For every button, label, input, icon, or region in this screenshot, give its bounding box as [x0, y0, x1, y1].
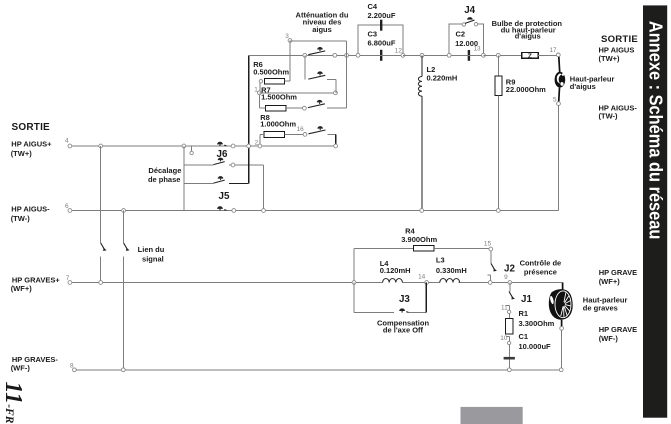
svg-text:9: 9 — [504, 274, 508, 281]
svg-text:SORTIE: SORTIE — [601, 34, 638, 45]
wire tweeter bottom lead — [558, 88, 561, 102]
wire TW+ rail — [72, 145, 336, 147]
svg-text:0.330mH: 0.330mH — [436, 266, 467, 275]
label Haut-parleur de graves — [583, 295, 628, 312]
label Haut-parleur d'aigus — [570, 74, 615, 91]
node row A output bus junction — [345, 53, 349, 57]
svg-text:aigus: aigus — [312, 25, 332, 34]
label R7 1.500Ohm — [261, 85, 297, 101]
wire signal link left vertical lower — [99, 256, 101, 282]
node J6 row2 on TW- rail — [262, 209, 266, 213]
svg-text:15: 15 — [484, 240, 492, 247]
svg-text:de phase: de phase — [148, 175, 181, 184]
svg-text:d'aigus: d'aigus — [570, 82, 596, 91]
node 2 on TW+ rail — [258, 144, 262, 148]
wire J6/J5 left vertical — [183, 146, 185, 211]
switch J6 row2 open blade — [214, 158, 225, 165]
node 14 — [425, 281, 429, 285]
svg-text:C4: C4 — [368, 2, 378, 11]
wire pin11 to R1 — [508, 314, 510, 319]
svg-text:J4: J4 — [464, 5, 475, 16]
wire R4 branch left vertical — [353, 248, 355, 282]
wire WF- rail — [76, 369, 561, 371]
wire output bus vertical — [346, 41, 348, 108]
label HP AIGUS (TW+) — [599, 46, 635, 63]
label Controle de presence — [520, 258, 562, 276]
node attenuation bus on TW+ rail — [247, 144, 251, 148]
wire C2 loop — [449, 24, 483, 55]
svg-text:(WF-): (WF-) — [11, 364, 31, 373]
node L2 tap — [420, 53, 424, 57]
wire pin10 to C1 — [508, 345, 510, 357]
node signal link right on WF- rail — [121, 368, 125, 372]
svg-text:HP AIGUS-: HP AIGUS- — [11, 205, 50, 214]
svg-text:1.500Ohm: 1.500Ohm — [261, 92, 297, 101]
label HP GRAVE (WF+) — [599, 268, 637, 286]
node L2 bottom on TW- rail — [420, 209, 424, 213]
svg-text:présence: présence — [524, 267, 557, 276]
node 17 — [556, 53, 560, 57]
resistor R8 — [260, 132, 284, 146]
svg-text:Z: Z — [528, 53, 532, 60]
resistor R7 — [260, 95, 286, 112]
svg-text:J2: J2 — [504, 263, 515, 274]
wire C3C4 loop — [358, 25, 403, 55]
svg-text:J5: J5 — [219, 191, 230, 202]
wire J6 row2 drop to TW- rail — [263, 165, 265, 211]
wire rail C2 to bulb — [483, 54, 521, 56]
switch J2 blade — [491, 264, 497, 272]
label HP GRAVES- (WF-) — [11, 355, 59, 373]
svg-text:3.900Ohm: 3.900Ohm — [401, 235, 437, 244]
node right of J5 — [232, 209, 236, 213]
switch S4 blade — [309, 126, 326, 134]
svg-text:J1: J1 — [521, 294, 532, 305]
node 1 — [258, 91, 262, 95]
wire J1 upper stub — [509, 283, 511, 292]
svg-text:10.000uF: 10.000uF — [519, 342, 552, 351]
label Attenuation du niveau des aigus — [296, 10, 349, 34]
svg-text:13: 13 — [473, 46, 481, 53]
jumper J5 closed blade — [217, 206, 226, 210]
wire switch S2 feed vertical — [304, 55, 306, 79]
wire row D output elbow — [328, 134, 336, 146]
svg-text:(TW-): (TW-) — [11, 214, 31, 223]
svg-text:0.220mH: 0.220mH — [427, 74, 458, 83]
node row D output on TW+ rail — [334, 144, 338, 148]
wire R4 branch top right — [434, 247, 489, 249]
label HP GRAVE (WF-) — [599, 325, 637, 343]
terminal 4 — [68, 144, 72, 148]
node R9 bottom on TW- rail — [496, 209, 500, 213]
switch S2 blade — [308, 71, 325, 79]
svg-text:C2: C2 — [456, 30, 466, 39]
wire attenuation row A — [249, 54, 358, 56]
wire J5 row3 left segment — [184, 183, 214, 185]
svg-text:14: 14 — [418, 274, 426, 281]
signal link switch right — [124, 243, 130, 251]
wire row C output elbow — [327, 107, 347, 109]
node row B right — [334, 91, 338, 95]
label HP AIGUS- (TW-) — [11, 205, 50, 224]
wire rail C3C4 to C2 — [403, 54, 449, 56]
svg-text:Contrôle de: Contrôle de — [520, 258, 562, 267]
wire J3 loop left vertical — [353, 283, 355, 313]
svg-text:4: 4 — [65, 138, 69, 145]
label Bulbe de protection du haut-parleur d'aigus — [492, 19, 563, 40]
bottom gray box — [461, 407, 523, 424]
node row C input — [303, 106, 307, 110]
svg-text:17: 17 — [549, 47, 557, 54]
capacitor C3 plate — [380, 50, 382, 61]
node row A output — [333, 53, 337, 57]
label Decalage de phase — [148, 166, 181, 184]
wire TW- rail — [72, 210, 559, 212]
svg-text:6.800uF: 6.800uF — [368, 38, 396, 47]
label L2 0.220mH — [427, 65, 458, 83]
wire node3 horizontal — [290, 40, 347, 42]
node C3C4 right on rail — [401, 53, 405, 57]
svg-text:Lien du: Lien du — [138, 245, 165, 254]
node 15 — [489, 247, 493, 251]
jumper J3 closed blade — [399, 308, 408, 312]
wire J2 upper stub — [490, 251, 492, 264]
node signal link left on WF+ rail — [99, 281, 103, 285]
svg-text:16: 16 — [297, 126, 305, 133]
protection bulb Z element — [522, 52, 539, 60]
svg-text:(TW+): (TW+) — [11, 149, 33, 158]
inductor L2 — [418, 55, 422, 210]
capacitor C4 plate — [380, 20, 382, 31]
label HP GRAVES+ (WF+) — [11, 275, 61, 293]
svg-text:SORTIE: SORTIE — [12, 122, 51, 133]
node woofer on WF- rail — [559, 368, 563, 372]
label L4 0.120mH — [380, 259, 411, 275]
jumper J6 closed blade — [217, 142, 226, 146]
capacitor C2 plate — [468, 50, 470, 61]
wire J6 row2 right segment — [229, 164, 264, 166]
wire tweeter top lead — [558, 57, 561, 72]
svg-text:HP GRAVE: HP GRAVE — [599, 268, 637, 277]
node J6 block top-left — [182, 144, 186, 148]
switch J1 blade — [509, 292, 515, 300]
pin 10 connector — [506, 337, 511, 345]
svg-text:Annexe : Schéma du réseau: Annexe : Schéma du réseau — [645, 21, 666, 240]
label R1 3.300Ohm — [519, 309, 555, 328]
svg-text:11-FR: 11-FR — [0, 382, 26, 424]
wire rail under C3 — [358, 54, 403, 56]
svg-text:5: 5 — [553, 96, 557, 103]
svg-text:0.500Ohm: 0.500Ohm — [253, 68, 289, 77]
svg-text:22.000Ohm: 22.000Ohm — [506, 85, 546, 94]
wire signal link right vertical upper — [123, 211, 125, 244]
tweeter speaker symbol Haut-parleur d'aigus — [555, 72, 566, 88]
label Compensation de l'axe Off — [377, 318, 430, 334]
signal link switch left — [101, 243, 107, 251]
svg-text:de l'axe Off: de l'axe Off — [383, 326, 424, 335]
resistor R4 — [414, 245, 434, 251]
wire C1 to WF- rail — [508, 360, 510, 370]
wire node 5 down to TW- rail — [557, 106, 559, 211]
svg-text:1.000Ohm: 1.000Ohm — [260, 120, 296, 129]
svg-text:3.300Ohm: 3.300Ohm — [519, 319, 555, 328]
wire J5 row3 right segment — [229, 183, 249, 185]
node C2 left on rail — [447, 53, 451, 57]
svg-text:signal: signal — [142, 255, 164, 264]
svg-text:HP AIGUS+: HP AIGUS+ — [11, 140, 52, 149]
inductor L3 — [440, 279, 460, 283]
node C3C4 left on rail — [356, 53, 360, 57]
switch S1 bypass — [308, 47, 325, 55]
svg-text:L3: L3 — [436, 256, 445, 265]
svg-text:(WF-): (WF-) — [599, 334, 619, 343]
svg-text:(WF+): (WF+) — [599, 277, 621, 286]
wire R6 left to node 1 — [259, 83, 261, 93]
svg-text:d'aigus: d'aigus — [515, 32, 541, 41]
svg-text:C3: C3 — [368, 29, 378, 38]
label C2 12.000 — [455, 30, 478, 48]
resistor R6 — [259, 78, 290, 84]
node row A input — [303, 53, 307, 57]
svg-text:C1: C1 — [519, 332, 529, 341]
label C4 2.200uF — [368, 2, 396, 20]
node C1 bottom on WF- rail — [507, 368, 511, 372]
svg-text:(WF+): (WF+) — [11, 284, 33, 293]
wire rail under C2 — [449, 54, 483, 56]
svg-text:12: 12 — [395, 47, 403, 54]
svg-text:J3: J3 — [399, 294, 410, 305]
svg-text:(TW+): (TW+) — [599, 54, 621, 63]
node TW+ / signal link junction — [99, 144, 103, 148]
label R6 0.500Ohm — [253, 60, 289, 77]
node TW- / signal link junction — [122, 209, 126, 213]
label R9 22.000Ohm — [506, 78, 546, 95]
switch S3 blade — [308, 100, 325, 108]
resistor R9 — [495, 55, 502, 210]
wire J3 loop right vertical — [425, 283, 427, 313]
wire woofer to WF- rail — [560, 330, 562, 370]
wire bulb to node 17 — [538, 54, 556, 56]
pin 11 connector — [506, 305, 511, 313]
capacitor C1 plate — [504, 357, 515, 360]
label C1 10.000uF — [519, 332, 552, 351]
wire J3 loop bottom right — [408, 312, 426, 314]
wire R7 output — [286, 107, 305, 109]
label HP AIGUS+ (TW+) — [11, 140, 52, 159]
node 3 — [288, 39, 292, 43]
sidebar black band — [643, 5, 667, 417]
page number 11-FR — [0, 382, 26, 424]
label C3 6.800uF — [368, 29, 396, 47]
wire signal link left vertical upper — [100, 146, 102, 243]
node row D input — [303, 133, 307, 137]
wire WF+ rail — [72, 282, 563, 284]
terminal 7 — [68, 281, 72, 285]
label L3 0.330mH — [436, 256, 467, 275]
node J2 bottom on WF+ rail — [488, 281, 492, 285]
wire attenuation input bus vertical — [248, 55, 250, 183]
node woofer bottom — [560, 326, 564, 330]
stub test point below TW+ rail — [190, 146, 193, 155]
label R4 3.900Ohm — [401, 226, 437, 244]
svg-text:R1: R1 — [519, 309, 529, 318]
node C2 right on rail — [482, 53, 486, 57]
node J6 row2 — [231, 163, 235, 167]
wire R4 branch top left — [354, 247, 414, 249]
svg-text:0.120mH: 0.120mH — [380, 266, 411, 275]
switch J5 row3 open blade — [214, 176, 225, 183]
wire J3 loop bottom — [354, 312, 394, 314]
wire J2 lower stub — [488, 275, 491, 281]
inductor L4 — [383, 279, 403, 283]
svg-text:2.200uF: 2.200uF — [368, 11, 396, 20]
svg-text:(TW-): (TW-) — [599, 112, 619, 121]
node 9 — [508, 281, 512, 285]
wire J6 row2 left segment — [184, 164, 214, 166]
svg-text:Décalage: Décalage — [148, 166, 181, 175]
label Lien du signal — [138, 245, 165, 264]
wire switch S2 output elbow — [327, 80, 336, 93]
node R9 tap — [496, 53, 500, 57]
wire R8 output — [284, 133, 305, 135]
sidebar title Annexe : Schema du reseau — [645, 21, 666, 240]
woofer speaker symbol Haut-parleur de graves — [549, 289, 573, 320]
svg-text:HP GRAVE: HP GRAVE — [599, 325, 637, 334]
wire WF+ rail corner down to woofer — [562, 283, 564, 290]
terminal 6 — [68, 209, 72, 213]
resistor R1 — [506, 318, 513, 334]
node right of J6 — [231, 144, 235, 148]
svg-text:de graves: de graves — [583, 304, 618, 313]
node 5 — [557, 102, 561, 106]
wire woofer bottom lead — [561, 320, 563, 327]
jumper J4 open blade — [462, 17, 478, 26]
wire node3 to R6 vertical — [289, 41, 291, 82]
label R8 1.000Ohm — [260, 113, 296, 129]
label HP AIGUS- (TW-) — [599, 103, 638, 120]
terminal 8 — [73, 368, 77, 372]
node R4 branch on WF+ rail — [352, 281, 356, 285]
wire signal link right vertical lower — [122, 256, 124, 370]
wire row B — [259, 92, 335, 94]
